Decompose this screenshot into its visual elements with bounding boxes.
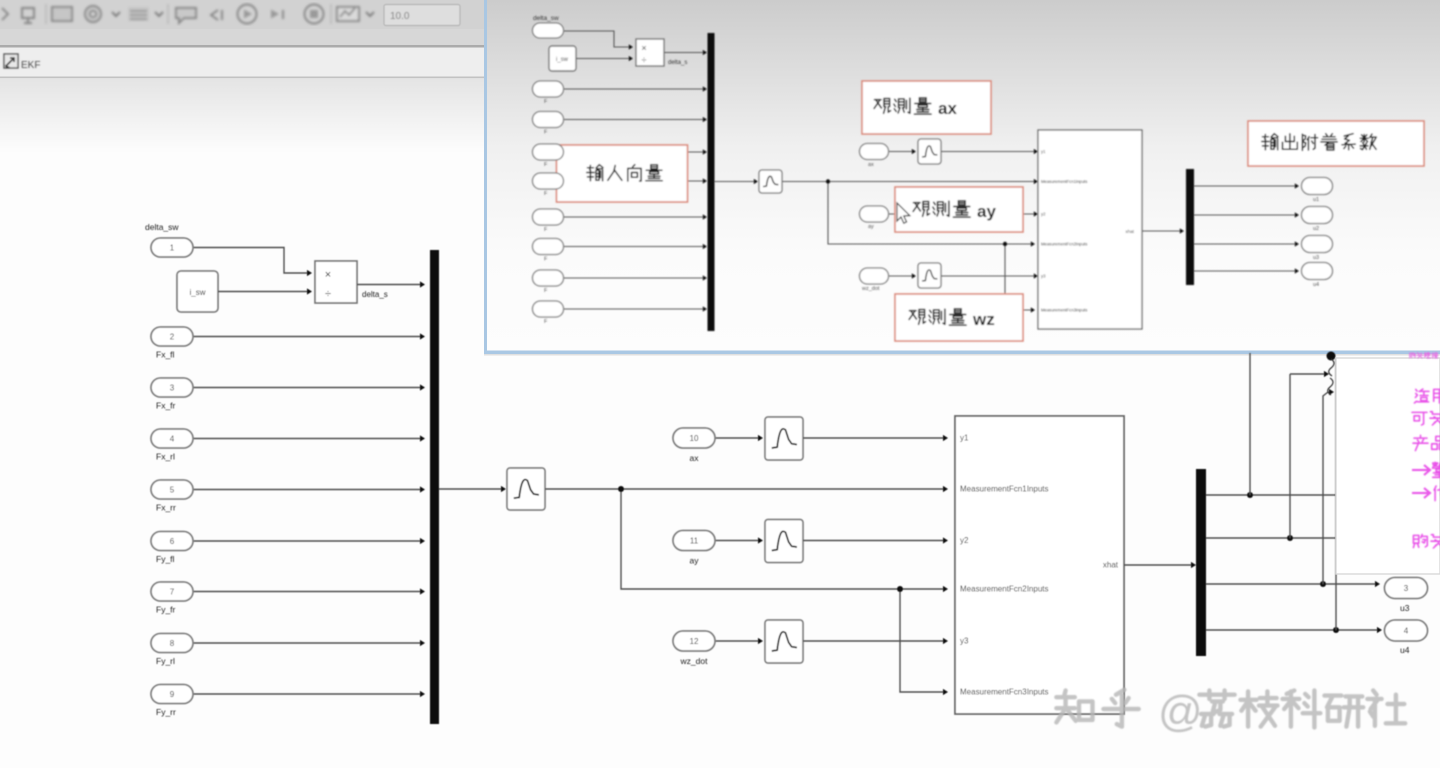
toolbar icon stop <box>305 5 324 24</box>
svg-text:y2: y2 <box>1041 212 1046 217</box>
svg-text:delta_sw: delta_sw <box>533 15 559 22</box>
svg-text:MeasurementFcn2Inputs: MeasurementFcn2Inputs <box>960 585 1049 594</box>
panel wire wz port to filter <box>889 275 912 277</box>
panel wire demux out 1 <box>1194 185 1295 187</box>
svg-text:ax: ax <box>868 162 874 168</box>
main inport ay <box>673 531 715 551</box>
main wire filter ay to EKF <box>803 540 943 542</box>
annotation box 输入向量 <box>557 145 688 202</box>
svg-text:2: 2 <box>170 332 175 341</box>
svg-text:Fy_rr: Fy_rr <box>156 707 176 717</box>
main wire filter to EKF input2 + branches <box>545 488 943 490</box>
advert line 1 <box>1414 389 1429 403</box>
advert line 2 <box>1412 412 1427 425</box>
panel wire inport 2 to mux <box>563 88 703 90</box>
panel wire inport 6 to mux <box>563 216 703 218</box>
main inport 7 <box>151 582 193 601</box>
main wire EKF out to demux <box>1124 564 1191 566</box>
main wire inport1 to product <box>193 248 307 274</box>
panel product block <box>636 39 664 66</box>
main inport ax wire <box>715 437 758 439</box>
svg-text:×: × <box>325 269 331 281</box>
svg-text:4: 4 <box>1404 626 1409 635</box>
svg-text:u3: u3 <box>1313 255 1319 261</box>
svg-text:Fy_fr: Fy_fr <box>156 605 176 615</box>
main outport 3 <box>1385 578 1428 599</box>
svg-text:y2: y2 <box>960 536 969 545</box>
main filter ax <box>765 417 803 460</box>
annotation box 输出附着系数 <box>1248 121 1424 166</box>
toolbar icon step back <box>211 10 222 20</box>
svg-text:xhat: xhat <box>1125 229 1134 234</box>
main inport wz_dot wire <box>715 640 758 642</box>
svg-text:y3: y3 <box>960 637 969 646</box>
toolbar separator 2 <box>167 4 169 24</box>
svg-text:MeasurementFcn3Inputs: MeasurementFcn3Inputs <box>960 688 1049 697</box>
panel wire filter wz to EKF input5 <box>941 275 1034 277</box>
main inport 4 <box>151 429 193 448</box>
svg-text:Fy_fl: Fy_fl <box>156 554 175 564</box>
main demux out wire 1 <box>1206 494 1338 496</box>
main wire inport 4 to mux <box>193 438 420 440</box>
panel inport 9 <box>533 301 564 317</box>
main inport 6 <box>151 532 193 551</box>
svg-text:3: 3 <box>170 383 175 392</box>
panel inport wz_dot <box>860 268 889 284</box>
junction blob at panel border <box>1327 352 1336 361</box>
svg-text:×: × <box>641 43 646 53</box>
vertical wire up 3 <box>1323 392 1328 584</box>
panel outport u3 <box>1302 236 1333 253</box>
main product block <box>315 261 357 303</box>
tab bar <box>0 48 484 77</box>
panel filter block <box>759 170 782 193</box>
main wire inport 5 to mux <box>193 489 420 491</box>
panel inport 3 <box>533 112 564 128</box>
panel left border <box>484 0 487 354</box>
canvas top gradient (left) <box>0 78 484 153</box>
svg-text:÷: ÷ <box>642 55 647 65</box>
main inport wz_dot <box>673 631 715 651</box>
svg-text:delta_s: delta_s <box>362 290 388 299</box>
toolbar icon print/preview <box>22 8 34 23</box>
panel outport u2 <box>1302 207 1333 224</box>
toolbar dropdown arrow 2 <box>155 12 163 16</box>
main filter block <box>507 468 545 510</box>
main demux bar <box>1196 469 1206 656</box>
svg-text:6: 6 <box>170 537 175 546</box>
toolbar dropdown arrow 1 <box>112 12 120 16</box>
main wire filter ax to EKF <box>803 437 943 439</box>
main demux out wire 2 <box>1206 537 1338 539</box>
svg-text:5: 5 <box>170 485 175 494</box>
panel inport ax <box>860 144 889 160</box>
panel wire i_sw to product <box>576 58 629 60</box>
vertical wire up 4 <box>1335 358 1337 630</box>
annotation box 观测量 ay <box>895 187 1023 232</box>
svg-text:ax: ax <box>938 99 957 118</box>
svg-text:3: 3 <box>1404 584 1409 593</box>
panel mux bar <box>708 33 715 331</box>
panel bottom border <box>484 351 1440 355</box>
main filter wz_dot <box>765 620 803 663</box>
main EKF measurement block <box>955 416 1124 714</box>
main inport 1 <box>151 238 193 257</box>
annotation box 观测量 wz <box>895 294 1023 341</box>
advert tiny pink text top <box>1410 353 1416 358</box>
svg-text:delta_sw: delta_sw <box>145 222 179 232</box>
svg-text:Fx_fr: Fx_fr <box>156 401 176 411</box>
panel wire demux out 3 <box>1194 243 1295 245</box>
panel gain block i_sw <box>549 46 576 71</box>
panel inport 8 <box>533 270 564 286</box>
svg-text:wz_dot: wz_dot <box>861 286 880 292</box>
svg-text:8: 8 <box>170 639 175 648</box>
svg-text:wz: wz <box>972 310 995 329</box>
panel inport 4 <box>533 144 564 160</box>
advert line 4 <box>1412 465 1430 475</box>
tab model icon <box>4 54 18 68</box>
panel wire demux out 2 <box>1194 214 1295 216</box>
main wire inport 9 to mux <box>193 693 420 695</box>
svg-text:y1: y1 <box>1041 149 1046 154</box>
main demux out wire 4 <box>1206 629 1377 631</box>
toolbar dropdown arrow 3 <box>366 12 374 16</box>
svg-text:4: 4 <box>170 434 175 443</box>
panel wire demux out 4 <box>1194 270 1295 272</box>
main inport 5 <box>151 480 193 499</box>
svg-text:Fx_fl: Fx_fl <box>156 350 175 360</box>
main wire product to mux <box>357 284 420 286</box>
panel outport u1 <box>1302 178 1333 195</box>
panel wire EKF out to demux <box>1142 230 1180 232</box>
main wire inport 2 to mux <box>193 336 420 338</box>
svg-text:÷: ÷ <box>325 288 331 300</box>
vertical wire up 1 <box>1249 353 1251 495</box>
main wire filter wz_dot to EKF <box>803 640 943 642</box>
annotation box 观测量 ax <box>862 81 991 134</box>
svg-text:ay: ay <box>690 556 700 566</box>
panel inport ay (drawn over box) <box>860 206 889 222</box>
advert line 3 <box>1413 435 1428 450</box>
toolbar icon run <box>238 5 257 24</box>
panel wire port1 to product <box>563 31 629 47</box>
toolbar separator <box>45 4 47 24</box>
toolbar/tab separator line <box>0 45 487 48</box>
main demux out wire 3 <box>1206 583 1375 585</box>
svg-text:delta_s: delta_s <box>668 60 687 66</box>
main outport 4 <box>1385 620 1428 641</box>
panel wire product to mux <box>664 52 703 54</box>
panel wire filter ax to EKF input1 <box>941 151 1034 153</box>
advert line 6 <box>1413 534 1427 547</box>
svg-text:ay: ay <box>868 224 874 230</box>
svg-text:y3: y3 <box>1041 274 1046 279</box>
main mux bar <box>430 250 439 724</box>
advert line 5 <box>1412 488 1430 498</box>
panel inport 6 <box>533 209 564 225</box>
toolbar icon comment <box>176 8 196 23</box>
panel filter ax <box>918 139 941 164</box>
panel wire ax port to filter <box>889 151 912 153</box>
svg-text:wz_dot: wz_dot <box>680 656 709 666</box>
svg-text:Fy_rl: Fy_rl <box>156 656 175 666</box>
toolbar icon step forward <box>271 10 279 19</box>
svg-text:u4: u4 <box>1313 282 1319 288</box>
main inport 8 <box>151 634 193 653</box>
svg-text:u3: u3 <box>1400 603 1410 613</box>
svg-text:11: 11 <box>690 536 699 545</box>
svg-text:i_sw: i_sw <box>556 57 569 63</box>
main filter ay <box>765 520 803 563</box>
main inport ax <box>673 428 715 448</box>
main inport 3 <box>151 378 193 397</box>
main inport 2 <box>151 327 193 346</box>
svg-text:EKF: EKF <box>21 60 40 71</box>
toolbar background <box>0 0 487 29</box>
svg-text:12: 12 <box>690 637 699 646</box>
panel outport u4 <box>1302 263 1333 280</box>
svg-text:MeasurementFcn3Inputs: MeasurementFcn3Inputs <box>1041 308 1087 313</box>
svg-text:MeasurementFcn1Inputs: MeasurementFcn1Inputs <box>1041 179 1087 184</box>
panel wire ay port to EKF input3 <box>889 213 1034 215</box>
panel wire mux to filter <box>715 181 755 183</box>
main inport 9 <box>151 685 193 704</box>
panel demux bar <box>1186 169 1194 285</box>
panel wire inport 9 to mux <box>563 308 703 310</box>
panel wire inport 8 to mux <box>563 277 703 279</box>
svg-text:7: 7 <box>170 587 175 596</box>
main wire mux to filter <box>439 488 501 490</box>
svg-text:Fx_rr: Fx_rr <box>156 503 176 513</box>
panel wire inport 4 to mux <box>563 151 703 153</box>
main gain block i_sw <box>177 271 218 312</box>
toolbar icon gear <box>85 6 101 22</box>
panel inport 5 <box>533 173 564 189</box>
svg-text:u2: u2 <box>1313 226 1319 232</box>
svg-text:xhat: xhat <box>1103 561 1119 570</box>
main wire inport 7 to mux <box>193 591 420 593</box>
toolbar icon fragment far left <box>2 8 8 20</box>
svg-text:Fx_rl: Fx_rl <box>156 452 175 462</box>
svg-text:y1: y1 <box>960 434 969 443</box>
svg-text:9: 9 <box>170 690 175 699</box>
watermark 知乎 @荔枝科研社 <box>1056 687 1405 736</box>
toolbar time field <box>384 5 460 26</box>
svg-text:10: 10 <box>690 434 699 443</box>
svg-text:ax: ax <box>690 453 700 463</box>
advert box <box>1336 358 1440 574</box>
main wire inport 8 to mux <box>193 642 420 644</box>
panel wire filter to EKF block input2 with branches <box>782 181 1034 183</box>
panel inport 7 <box>533 239 564 255</box>
toolbar icon list <box>128 7 149 21</box>
main wire inport 6 to mux <box>193 540 420 542</box>
svg-text:10.0: 10.0 <box>390 11 410 22</box>
svg-text:MeasurementFcn2Inputs: MeasurementFcn2Inputs <box>1041 242 1087 247</box>
overlay zoom panel background <box>487 0 1440 351</box>
panel filter wz <box>918 263 941 288</box>
main inport ay wire <box>715 540 758 542</box>
mouse cursor <box>897 203 910 223</box>
vertical wire up 2 <box>1289 374 1291 538</box>
panel wire inport 7 to mux <box>563 246 703 248</box>
svg-text:i_sw: i_sw <box>189 288 205 297</box>
svg-text:u4: u4 <box>1400 645 1410 655</box>
svg-text:ay: ay <box>977 202 996 221</box>
panel inport 1 <box>533 23 564 38</box>
main wire inport 3 to mux <box>193 387 420 389</box>
svg-text:u1: u1 <box>1313 197 1319 203</box>
toolbar icon picture <box>52 7 72 21</box>
svg-text:1: 1 <box>170 243 175 252</box>
panel wire inport 5 to mux <box>563 180 703 182</box>
toolbar separator 3 <box>330 4 332 24</box>
toolbar icon scope <box>337 7 359 21</box>
panel EKF measurement block <box>1038 130 1142 329</box>
svg-text:@: @ <box>1158 687 1203 736</box>
main wire i_sw to product <box>218 291 307 293</box>
panel inport 2 <box>533 81 564 97</box>
panel wire inport 3 to mux <box>563 119 703 121</box>
svg-text:MeasurementFcn1Inputs: MeasurementFcn1Inputs <box>960 485 1049 494</box>
